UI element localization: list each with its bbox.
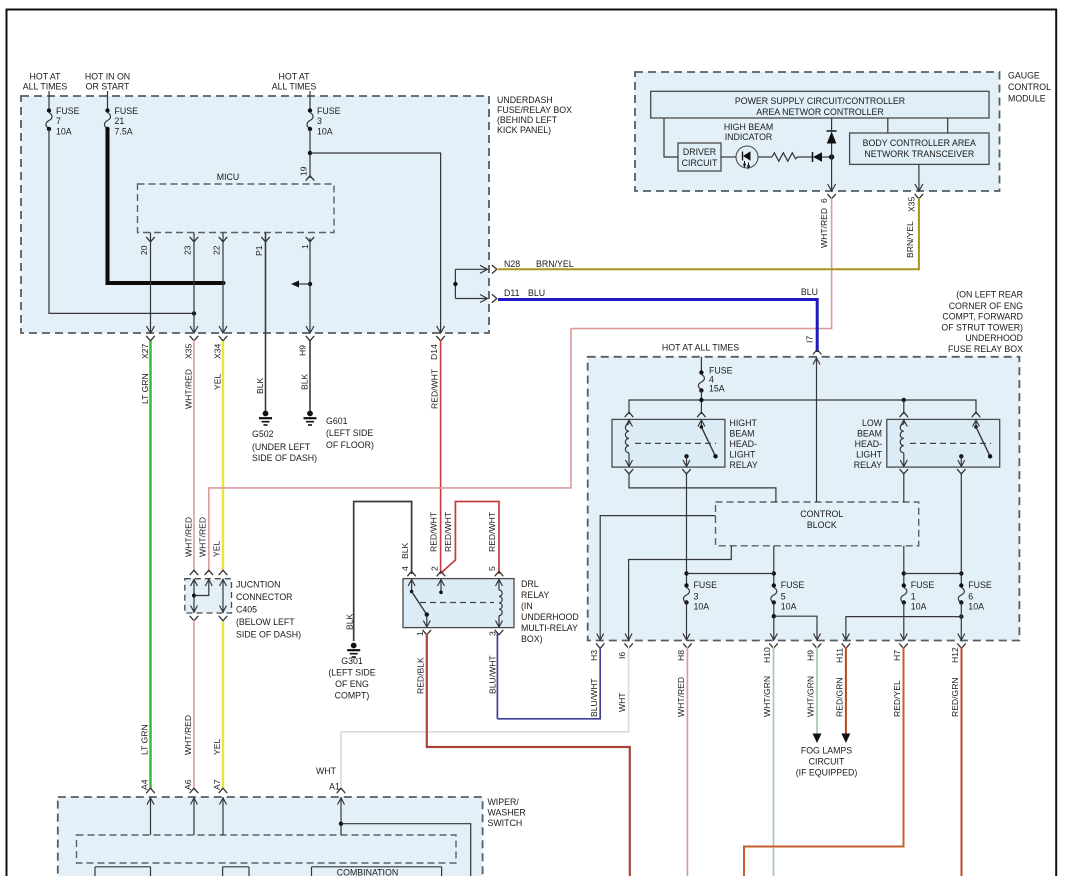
wire WHT/RED (from gauge) into C405	[208, 490, 210, 572]
control block	[716, 502, 919, 546]
svg-text:FOG LAMPS: FOG LAMPS	[801, 746, 852, 756]
MICU pin P1 wire BLK to G502	[265, 233, 267, 412]
svg-text:P1: P1	[254, 245, 264, 256]
wire control block to I6	[629, 546, 732, 641]
wiper internal wires	[150, 797, 152, 835]
svg-text:YEL: YEL	[212, 739, 222, 755]
svg-text:WHT/RED: WHT/RED	[184, 369, 194, 409]
svg-text:WHT: WHT	[617, 692, 627, 712]
svg-text:BLK: BLK	[300, 373, 310, 390]
svg-text:H11: H11	[835, 648, 845, 663]
svg-text:BRN/YEL: BRN/YEL	[536, 259, 574, 269]
underhood fuse relay box	[588, 357, 1020, 641]
wire control block to fuse1	[903, 546, 905, 585]
fuse 1 10A	[902, 583, 906, 587]
svg-text:AREA NETWOR CONTROLLER: AREA NETWOR CONTROLLER	[756, 107, 884, 117]
svg-text:FUSE: FUSE	[115, 106, 139, 116]
svg-text:RED/YEL: RED/YEL	[892, 680, 902, 717]
svg-text:CIRCUIT: CIRCUIT	[809, 757, 845, 767]
svg-text:BLK: BLK	[345, 613, 355, 630]
svg-text:BOX): BOX)	[521, 634, 543, 644]
svg-text:RED/BLK: RED/BLK	[415, 657, 425, 694]
wire BLU/WHT DRL pin3 (joins H3 wire)	[496, 634, 498, 719]
svg-text:DRL: DRL	[521, 579, 539, 589]
svg-text:COMBINATION: COMBINATION	[337, 868, 398, 876]
svg-text:RELAY: RELAY	[730, 460, 758, 470]
wire fuse3 branch to D14	[310, 153, 441, 325]
svg-text:10A: 10A	[968, 602, 984, 612]
diode up to power supply	[831, 118, 833, 131]
svg-text:WHT: WHT	[316, 766, 337, 776]
C405 internal wires	[193, 579, 195, 613]
svg-text:MODULE: MODULE	[1008, 94, 1046, 104]
svg-text:10A: 10A	[911, 602, 927, 612]
MICU bottom connectors	[147, 237, 155, 242]
svg-text:OF STRUT TOWER): OF STRUT TOWER)	[941, 322, 1023, 332]
svg-text:CIRCUIT: CIRCUIT	[682, 158, 718, 168]
svg-text:(LEFT SIDE: (LEFT SIDE	[326, 428, 373, 438]
svg-text:ALL TIMES: ALL TIMES	[23, 82, 68, 92]
svg-text:10A: 10A	[317, 127, 333, 137]
svg-text:UNDERHOOD: UNDERHOOD	[521, 612, 579, 622]
svg-text:A7: A7	[212, 779, 222, 790]
ground G301	[351, 643, 357, 649]
connector H12	[958, 644, 966, 649]
wire BLU D11 to I7	[498, 300, 817, 353]
svg-text:RED/GRN: RED/GRN	[835, 677, 845, 717]
svg-text:D14: D14	[429, 344, 439, 360]
svg-text:BLU/WHT: BLU/WHT	[589, 678, 599, 717]
wire X35 exit	[918, 164, 920, 191]
high beam relay top connectors	[625, 412, 633, 417]
MICU pin 20 wire	[150, 233, 152, 334]
svg-text:GAUGE: GAUGE	[1008, 71, 1040, 81]
svg-text:CONTROL: CONTROL	[800, 509, 843, 519]
wire RED/WHT jumper pin2 to pin5	[441, 502, 499, 575]
svg-text:WHT/RED: WHT/RED	[198, 517, 208, 557]
svg-text:H7: H7	[892, 650, 902, 661]
svg-text:BLK: BLK	[400, 542, 410, 559]
svg-text:HOT AT ALL TIMES: HOT AT ALL TIMES	[662, 343, 739, 353]
svg-text:A4: A4	[140, 779, 150, 790]
fuse 5 10A	[772, 583, 776, 587]
svg-text:1: 1	[911, 592, 916, 602]
wire fuse5 branch to H9	[772, 614, 776, 618]
combination switch inner box	[77, 835, 457, 863]
svg-text:DRIVER: DRIVER	[683, 147, 716, 157]
svg-text:UNDERHOOD: UNDERHOOD	[965, 333, 1023, 343]
svg-text:FUSE: FUSE	[968, 580, 992, 590]
svg-text:RED/WHT: RED/WHT	[430, 368, 440, 409]
svg-text:I7: I7	[804, 336, 814, 343]
connector H10	[770, 644, 778, 649]
svg-text:JUCNTION: JUCNTION	[236, 580, 280, 590]
svg-text:HOT AT: HOT AT	[30, 72, 62, 82]
connector I6	[625, 644, 633, 649]
wire WHT A1	[340, 732, 342, 790]
svg-text:(IF EQUIPPED): (IF EQUIPPED)	[796, 768, 858, 778]
svg-text:5: 5	[487, 566, 497, 571]
svg-text:HEAD-: HEAD-	[855, 439, 882, 449]
wire LT GRN X27 to A4	[149, 341, 152, 789]
diode (pointing left)	[812, 152, 814, 162]
svg-text:10A: 10A	[694, 602, 710, 612]
fuse 21 7.5A	[107, 91, 109, 110]
wire pin 6 exit	[831, 157, 833, 191]
MICU pin 1 wire to H9	[309, 238, 311, 333]
wire WHT/RED H8 down	[686, 647, 688, 876]
svg-text:1: 1	[415, 631, 425, 636]
svg-text:WASHER: WASHER	[488, 808, 526, 818]
wire low beam output to fuse6 node	[960, 473, 962, 585]
connector H11	[842, 644, 850, 649]
svg-text:G502: G502	[252, 429, 274, 439]
wire WHT/RED X35 to C405	[193, 340, 195, 572]
svg-text:SIDE OF DASH): SIDE OF DASH)	[236, 630, 301, 640]
svg-text:G601: G601	[326, 416, 348, 426]
wires power supply to body controller	[887, 118, 889, 133]
body controller area network transceiver box	[850, 133, 989, 164]
wire driver circuit to indicator	[721, 156, 737, 158]
svg-text:ALL TIMES: ALL TIMES	[272, 82, 317, 92]
svg-text:MULTI-RELAY: MULTI-RELAY	[521, 623, 578, 633]
wire to D11 connector	[455, 298, 486, 300]
wire YEL X34 to C405	[222, 341, 225, 571]
svg-text:BRN/YEL: BRN/YEL	[905, 221, 915, 258]
svg-text:LIGHT: LIGHT	[856, 450, 883, 460]
svg-text:RED/GRN: RED/GRN	[950, 677, 960, 717]
svg-text:21: 21	[115, 116, 125, 126]
wire power supply to driver circuit	[664, 118, 678, 157]
svg-text:6: 6	[819, 198, 829, 203]
svg-text:RED/WHT: RED/WHT	[487, 511, 497, 552]
C405 bottom connectors	[190, 616, 198, 621]
svg-text:OR START: OR START	[86, 82, 130, 92]
driver circuit box	[678, 143, 721, 171]
svg-text:BLU: BLU	[801, 287, 818, 297]
MICU pin 22 wire	[222, 233, 224, 334]
wire BLK H9 to G601	[309, 340, 311, 411]
svg-text:7: 7	[56, 116, 61, 126]
svg-text:INDICATOR: INDICATOR	[725, 132, 773, 142]
svg-text:YEL: YEL	[212, 541, 222, 557]
svg-text:WHT/GRN: WHT/GRN	[762, 676, 772, 717]
svg-text:H12: H12	[950, 647, 960, 663]
svg-text:(IN: (IN	[521, 601, 533, 611]
low beam relay bottom connectors	[900, 469, 908, 474]
connector H7	[900, 644, 908, 649]
svg-text:10A: 10A	[781, 602, 797, 612]
svg-text:WHT/RED: WHT/RED	[184, 517, 194, 557]
wire resistor to diode	[798, 156, 813, 158]
svg-text:FUSE: FUSE	[911, 580, 935, 590]
wire high beam coil to control block	[629, 473, 776, 502]
svg-text:BLU/WHT: BLU/WHT	[487, 655, 497, 694]
svg-text:COMPT, FORWARD: COMPT, FORWARD	[942, 312, 1023, 322]
svg-text:X35: X35	[906, 196, 916, 212]
svg-text:(BEHIND LEFT: (BEHIND LEFT	[497, 115, 558, 125]
svg-text:A6: A6	[183, 779, 193, 790]
wire WHT/RED gauge pin6 long route to C405	[209, 198, 832, 490]
wire fuse4 to bus	[700, 390, 702, 414]
wire fuse21 thick output to pin22 node	[108, 129, 224, 283]
low beam relay top connectors	[900, 412, 908, 417]
svg-text:N28: N28	[504, 259, 520, 269]
connector H8	[684, 644, 692, 649]
svg-text:RELAY: RELAY	[854, 460, 882, 470]
wire RED/WHT D14 to DRL pin 2	[440, 340, 442, 574]
svg-text:2: 2	[429, 566, 439, 571]
svg-text:BEAM: BEAM	[857, 429, 882, 439]
svg-text:NETWORK TRANSCEIVER: NETWORK TRANSCEIVER	[864, 149, 974, 159]
ground G601	[307, 411, 313, 417]
wire fuse3 to MICU pin 19	[309, 129, 311, 178]
svg-text:A1: A1	[329, 782, 340, 792]
high beam headlight relay box	[612, 419, 725, 467]
node branch to N28/D11	[454, 269, 456, 298]
svg-text:CONTROL: CONTROL	[1008, 82, 1051, 92]
high beam relay internals	[628, 419, 630, 424]
C405 top connectors	[190, 570, 198, 575]
fuse 3 10A	[684, 583, 688, 587]
high beam relay bottom connectors	[625, 469, 633, 474]
arrow left at pin1 node	[297, 283, 310, 285]
svg-text:BEAM: BEAM	[730, 429, 755, 439]
wire high beam output to fuse3 node	[686, 473, 688, 585]
svg-text:H8: H8	[676, 650, 686, 661]
connector H9	[813, 644, 821, 649]
DRL internals	[411, 579, 413, 592]
svg-text:FUSE: FUSE	[317, 106, 341, 116]
svg-text:BLOCK: BLOCK	[807, 520, 837, 530]
wire control block to fuse5	[773, 546, 775, 585]
svg-text:H9: H9	[298, 345, 308, 356]
DRL bottom connectors	[423, 630, 431, 635]
wire fuse6 branch to H11	[959, 614, 963, 618]
svg-text:4: 4	[400, 566, 410, 571]
MICU box	[138, 184, 335, 233]
svg-text:FUSE: FUSE	[694, 580, 718, 590]
wire D14 exit arrow	[440, 325, 442, 333]
svg-text:LIGHT: LIGHT	[730, 450, 757, 460]
svg-text:FUSE/RELAY BOX: FUSE/RELAY BOX	[497, 105, 572, 115]
low beam headlight relay box	[887, 419, 1000, 467]
svg-text:LT GRN: LT GRN	[140, 373, 150, 404]
wire BLU/WHT H3 to DRL pin3	[497, 647, 600, 719]
DRL relay box	[403, 579, 514, 628]
svg-text:HEAD-: HEAD-	[730, 439, 757, 449]
svg-text:WHT/GRN: WHT/GRN	[806, 676, 816, 717]
svg-text:WHT/RED: WHT/RED	[183, 715, 193, 755]
svg-text:HIGHT: HIGHT	[730, 418, 758, 428]
svg-text:FUSE: FUSE	[781, 580, 805, 590]
bus wire to relays	[629, 400, 976, 414]
svg-text:MICU: MICU	[217, 172, 239, 182]
svg-text:15A: 15A	[709, 384, 725, 394]
resistor	[772, 153, 798, 161]
ground G502	[263, 411, 269, 417]
svg-text:COMPT): COMPT)	[335, 691, 370, 701]
wiper/washer switch box	[58, 797, 483, 876]
wire indicator to resistor	[758, 156, 773, 158]
svg-text:WIPER/: WIPER/	[488, 797, 520, 807]
svg-text:H3: H3	[589, 650, 599, 661]
svg-text:LT GRN: LT GRN	[140, 724, 150, 755]
wire BLK G301 to DRL pin4	[354, 502, 412, 642]
junction connector C405 box	[185, 579, 232, 613]
svg-text:(BELOW LEFT: (BELOW LEFT	[236, 617, 295, 627]
svg-text:10A: 10A	[56, 127, 72, 137]
svg-text:POWER SUPPLY CIRCUIT/CONTROLLE: POWER SUPPLY CIRCUIT/CONTROLLER	[735, 96, 905, 106]
wire WHT/GRN H9 to fog lamps	[816, 647, 818, 734]
wire RED/GRN H12 down	[961, 647, 963, 876]
svg-text:7.5A: 7.5A	[115, 127, 133, 137]
svg-text:(UNDER LEFT: (UNDER LEFT	[252, 442, 311, 452]
svg-text:WHT/RED: WHT/RED	[819, 208, 829, 248]
svg-text:(LEFT SIDE: (LEFT SIDE	[328, 668, 375, 678]
gauge control module box	[635, 72, 1000, 191]
svg-text:D11: D11	[504, 288, 520, 298]
svg-text:5: 5	[781, 592, 786, 602]
svg-text:RED/WHT: RED/WHT	[428, 511, 438, 552]
MICU pin 23 wire	[193, 233, 195, 334]
low beam relay internals	[903, 419, 905, 424]
svg-text:C405: C405	[236, 605, 257, 615]
svg-text:CONNECTOR: CONNECTOR	[236, 592, 293, 602]
svg-text:KICK PANEL): KICK PANEL)	[497, 125, 551, 135]
svg-text:3: 3	[317, 116, 322, 126]
wire to N28 connector	[455, 268, 486, 270]
svg-text:1: 1	[300, 244, 310, 249]
wire RED/BLK DRL pin1 down	[427, 634, 630, 876]
svg-text:(ON LEFT REAR: (ON LEFT REAR	[956, 290, 1023, 300]
svg-text:X35: X35	[184, 343, 194, 359]
svg-text:OF ENG: OF ENG	[335, 679, 369, 689]
connector I7 into box	[813, 350, 821, 355]
svg-text:BLK: BLK	[255, 377, 265, 394]
svg-text:X27: X27	[140, 343, 150, 359]
wire RED/YEL H7 down	[744, 647, 904, 876]
svg-text:LOW: LOW	[862, 418, 883, 428]
fuse 6 10A	[959, 583, 963, 587]
fuse 7 10A	[48, 91, 50, 110]
svg-text:BODY CONTROLLER AREA: BODY CONTROLLER AREA	[863, 138, 976, 148]
svg-text:HIGH BEAM: HIGH BEAM	[724, 122, 773, 132]
underdash fuse/relay box	[21, 96, 489, 333]
wire BRN/YEL gauge X35 to N28	[498, 198, 919, 269]
node junction at pin6 branch	[829, 154, 834, 159]
fuse 3 10A	[309, 91, 311, 110]
wire WHT/GRN H10 down	[773, 647, 775, 876]
svg-text:H9: H9	[806, 650, 816, 661]
svg-text:23: 23	[183, 245, 193, 255]
svg-text:SIDE OF DASH): SIDE OF DASH)	[252, 453, 317, 463]
svg-text:HOT IN ON: HOT IN ON	[85, 72, 130, 82]
wire fuse7 output to pin23 node	[49, 129, 194, 313]
svg-text:19: 19	[299, 166, 309, 176]
wire WHT/RED C405 to A6	[193, 620, 195, 790]
svg-text:YEL: YEL	[213, 374, 223, 390]
connector H3	[596, 644, 604, 649]
svg-text:I6: I6	[617, 652, 627, 659]
svg-text:RED/WHT: RED/WHT	[443, 511, 453, 552]
wire I7 to control block	[816, 357, 818, 502]
svg-text:WHT/RED: WHT/RED	[676, 677, 686, 717]
svg-text:20: 20	[139, 245, 149, 255]
svg-text:FUSE RELAY BOX: FUSE RELAY BOX	[948, 344, 1023, 354]
combination switch boxes	[94, 867, 96, 876]
connector A1	[337, 788, 345, 793]
svg-text:FUSE: FUSE	[56, 106, 80, 116]
wire control block to H3	[600, 516, 715, 641]
wire RED/GRN H11 to fog lamps	[845, 647, 847, 734]
wire WHT I6 to A1	[341, 647, 629, 732]
svg-text:UNDERDASH: UNDERDASH	[497, 95, 553, 105]
svg-text:SWITCH: SWITCH	[488, 818, 523, 828]
wire low beam coil to control block	[903, 473, 905, 502]
svg-text:HOT AT: HOT AT	[279, 72, 311, 82]
svg-text:3: 3	[694, 592, 699, 602]
power supply circuit/controller area networ controller box	[651, 91, 989, 118]
svg-text:H10: H10	[762, 647, 772, 663]
svg-text:6: 6	[968, 592, 973, 602]
svg-text:X34: X34	[213, 343, 223, 359]
svg-text:G301: G301	[341, 656, 363, 666]
wire YEL C405 to A7	[222, 622, 225, 789]
fuse 4 15A	[700, 357, 702, 372]
svg-text:3: 3	[487, 631, 497, 636]
svg-text:CORNER OF ENG: CORNER OF ENG	[949, 301, 1023, 311]
svg-text:BLU: BLU	[528, 288, 545, 298]
wiper A1 internal node	[340, 797, 342, 835]
svg-text:22: 22	[212, 245, 222, 255]
svg-text:OF FLOOR): OF FLOOR)	[326, 440, 374, 450]
svg-text:RELAY: RELAY	[521, 590, 549, 600]
DRL top connectors	[408, 571, 416, 576]
